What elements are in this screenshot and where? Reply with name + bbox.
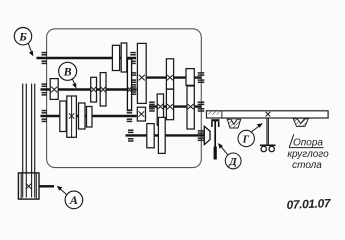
bevel gear on shaft IV end <box>204 126 210 144</box>
round table (side view bar) <box>207 111 329 118</box>
arrow A <box>60 188 67 194</box>
gear IV2 <box>158 117 165 153</box>
bearing shaft III right <box>127 111 133 122</box>
callout circle G (Г) <box>238 130 254 146</box>
screw nut box <box>18 173 39 199</box>
gear III2 double block <box>67 96 77 137</box>
gear I1 <box>112 45 119 70</box>
bearing shaft VI left <box>149 102 155 111</box>
callout circle A (А) <box>65 191 83 209</box>
bevel gear on vertical table shaft <box>211 119 219 121</box>
hatched support 1 <box>227 119 240 128</box>
arrow B <box>28 43 31 52</box>
svg-text:Д: Д <box>228 156 237 168</box>
gear II2 <box>91 77 97 102</box>
shaft V upper right <box>138 76 202 78</box>
gear IV1 <box>147 124 154 148</box>
bearing shaft IV left <box>128 130 134 141</box>
table centre column <box>266 118 268 145</box>
table hub divider <box>221 111 223 118</box>
svg-text:Г: Г <box>242 134 250 146</box>
hatched support 2 (opora) <box>293 119 308 127</box>
svg-text:В: В <box>63 65 72 79</box>
roller right <box>269 146 274 151</box>
gear II4 narrow tall <box>127 59 131 110</box>
svg-text:круглого: круглого <box>287 149 329 160</box>
bearing shaft I left <box>42 53 48 64</box>
leader line for opora label <box>289 134 294 147</box>
big gear S1 <box>137 43 146 103</box>
output stub shaft A <box>39 185 54 187</box>
roller left <box>261 146 266 151</box>
gear Va <box>166 59 173 89</box>
bearing shaft VI right <box>198 102 205 111</box>
gear III3 <box>79 103 86 129</box>
cross mark in nut box <box>26 183 32 189</box>
gear Vb <box>186 69 194 86</box>
gearbox housing frame <box>47 29 202 168</box>
arrow D <box>221 146 229 155</box>
cross mark on table <box>266 112 271 117</box>
shaft III <box>41 115 137 118</box>
svg-text:стола: стола <box>292 160 322 171</box>
bearing shaft II right <box>131 85 136 94</box>
roller carriage bar <box>260 144 276 146</box>
gear II3 <box>100 73 106 106</box>
shaft I <box>37 57 137 60</box>
callout circle V (В) <box>59 62 77 80</box>
bearing shaft I right <box>130 53 136 64</box>
svg-text:Б: Б <box>18 30 27 44</box>
vertical feed screw (4 lines) <box>23 84 35 174</box>
gear VIc <box>187 86 194 129</box>
arrow V <box>72 79 74 85</box>
clutch box at shaft III right end <box>137 107 145 121</box>
hatched hub section in table <box>207 112 221 115</box>
bearing shaft V right <box>198 73 205 82</box>
shaft IV lower right <box>126 134 205 136</box>
vertical shaft of table drive <box>214 121 216 148</box>
callout circle B (Б) <box>14 28 31 45</box>
gear I2 <box>121 43 127 72</box>
bearing shaft V left <box>131 73 136 82</box>
gear III1 <box>60 101 66 132</box>
svg-text:07.01.07: 07.01.07 <box>286 196 332 212</box>
shaft VI right <box>149 105 201 107</box>
shaft II <box>41 88 137 91</box>
gear VIb <box>166 89 173 120</box>
bearing shaft IV right <box>198 131 205 140</box>
bearing shaft II left <box>42 84 48 95</box>
gear III4 <box>87 107 93 128</box>
arrow G <box>251 125 260 132</box>
svg-text:Опора: Опора <box>293 138 323 149</box>
callout circle D (Д) <box>225 153 241 169</box>
gear VIa <box>157 94 163 125</box>
gear II1 <box>50 79 58 100</box>
svg-text:А: А <box>69 193 78 207</box>
bearing shaft III left <box>42 111 48 122</box>
